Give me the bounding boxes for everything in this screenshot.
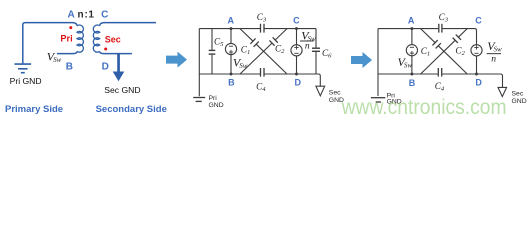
svg-text:Pri GND: Pri GND xyxy=(10,76,42,86)
svg-text::: : xyxy=(85,10,88,21)
svg-text:n: n xyxy=(305,40,310,51)
svg-text:Sec: Sec xyxy=(512,90,524,97)
svg-text:B: B xyxy=(228,78,235,88)
svg-text:A: A xyxy=(228,15,235,25)
svg-text:GND: GND xyxy=(512,98,527,105)
svg-text:www.cntronics.com: www.cntronics.com xyxy=(341,96,507,119)
svg-text:Sec GND: Sec GND xyxy=(104,85,140,95)
svg-text:B: B xyxy=(409,78,416,88)
svg-text:B: B xyxy=(66,61,73,72)
svg-text:Primary Side: Primary Side xyxy=(5,104,63,115)
svg-text:C1: C1 xyxy=(241,45,250,57)
svg-text:D: D xyxy=(295,78,302,88)
svg-text:Sec: Sec xyxy=(329,90,341,97)
svg-text:C1: C1 xyxy=(421,46,430,58)
svg-text:n: n xyxy=(78,10,84,21)
svg-text:A: A xyxy=(67,10,74,21)
svg-text:VSw: VSw xyxy=(47,49,62,64)
svg-text:C: C xyxy=(475,15,482,25)
svg-text:Sec: Sec xyxy=(105,34,121,44)
svg-text:C3: C3 xyxy=(439,12,449,24)
svg-text:C6: C6 xyxy=(322,48,332,60)
svg-text:VSw: VSw xyxy=(487,39,502,54)
svg-text:n: n xyxy=(491,54,496,65)
svg-text:C2: C2 xyxy=(275,44,285,56)
svg-text:C4: C4 xyxy=(435,81,445,93)
svg-text:VSw: VSw xyxy=(398,55,413,70)
svg-text:A: A xyxy=(408,15,415,25)
svg-text:VSw: VSw xyxy=(233,56,248,71)
svg-text:Secondary Side: Secondary Side xyxy=(96,104,167,115)
svg-text:C: C xyxy=(101,10,108,21)
svg-text:C4: C4 xyxy=(256,81,266,93)
svg-text:D: D xyxy=(475,78,482,88)
svg-text:D: D xyxy=(102,61,109,72)
svg-text:C5: C5 xyxy=(214,36,224,48)
svg-text:C: C xyxy=(293,15,300,25)
svg-text:1: 1 xyxy=(88,10,94,21)
svg-text:Pri: Pri xyxy=(60,34,72,44)
svg-text:GND: GND xyxy=(209,102,224,109)
svg-text:C3: C3 xyxy=(257,12,267,24)
svg-text:C2: C2 xyxy=(455,45,465,57)
